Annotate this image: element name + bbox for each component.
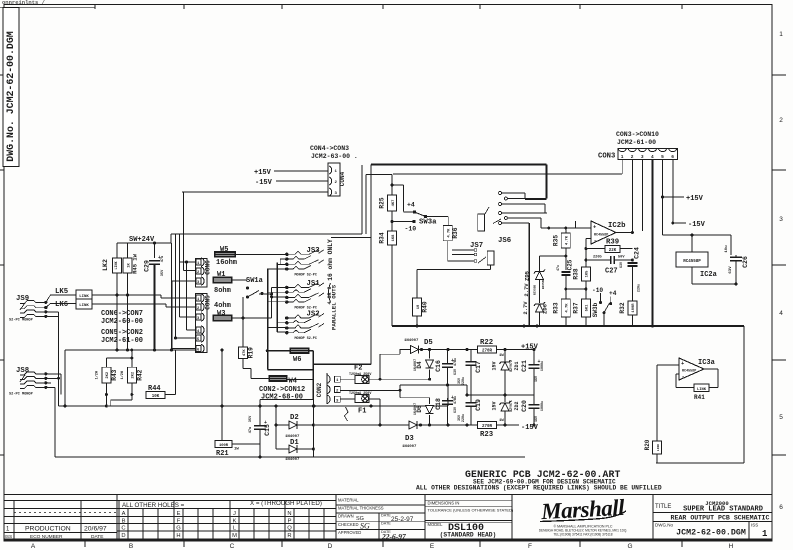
svg-text:R42: R42 xyxy=(136,369,143,380)
svg-text:2: 2 xyxy=(631,154,634,160)
svg-text:RC4558P: RC4558P xyxy=(682,370,696,374)
svg-text:D: D xyxy=(121,533,125,539)
svg-text:CON4: CON4 xyxy=(339,171,346,186)
svg-text:N: N xyxy=(287,511,291,517)
svg-text:1N4007: 1N4007 xyxy=(404,339,419,343)
svg-text:MONOP S2-PC: MONOP S2-PC xyxy=(295,337,317,341)
svg-text:B: B xyxy=(129,543,133,550)
svg-text:BZY97C: BZY97C xyxy=(509,400,513,412)
svg-text:S2-PC MONOP: S2-PC MONOP xyxy=(9,319,33,323)
svg-text:TITLE: TITLE xyxy=(655,504,671,510)
svg-text:ZD5: ZD5 xyxy=(524,270,531,281)
svg-text:C15: C15 xyxy=(264,424,271,436)
svg-text:10u: 10u xyxy=(725,245,729,253)
svg-text:1000u: 1000u xyxy=(541,361,545,371)
svg-text:10K: 10K xyxy=(152,395,160,399)
svg-text:REAR OUTPUT PCB SCHEMATIC: REAR OUTPUT PCB SCHEMATIC xyxy=(671,515,770,522)
svg-text:JS1: JS1 xyxy=(307,280,321,288)
svg-text:-15V: -15V xyxy=(255,179,273,187)
svg-text:+15V: +15V xyxy=(254,169,272,177)
svg-text:25-2-97: 25-2-97 xyxy=(391,516,414,523)
svg-text:1N4007: 1N4007 xyxy=(402,445,417,449)
svg-text:5K1: 5K1 xyxy=(586,304,590,312)
svg-text:JS3: JS3 xyxy=(307,247,321,255)
svg-text:63V: 63V xyxy=(454,406,458,413)
svg-text:R43: R43 xyxy=(111,369,118,380)
svg-text:F: F xyxy=(528,543,532,550)
svg-text:-10: -10 xyxy=(592,287,603,294)
svg-text:RC4558P: RC4558P xyxy=(683,260,701,264)
svg-text:100R: 100R xyxy=(632,303,636,313)
svg-text:6: 6 xyxy=(671,154,674,160)
svg-text:E: E xyxy=(430,543,435,550)
svg-text:R40: R40 xyxy=(422,301,429,312)
svg-text:-: - xyxy=(682,373,685,380)
svg-text:R36: R36 xyxy=(452,227,459,238)
svg-text:JS6: JS6 xyxy=(498,237,511,245)
svg-text:ALL OTHER HOLES =: ALL OTHER HOLES = xyxy=(122,502,185,509)
svg-text:4: 4 xyxy=(651,154,654,160)
svg-text:4ohm: 4ohm xyxy=(214,302,231,310)
svg-text:35V: 35V xyxy=(249,415,253,422)
svg-text:Q: Q xyxy=(287,526,292,532)
svg-text:LINK: LINK xyxy=(79,304,89,308)
svg-text:C17: C17 xyxy=(475,361,482,373)
svg-text:LK2: LK2 xyxy=(102,259,109,271)
svg-text:-: - xyxy=(594,237,597,244)
svg-text:ZD1: ZD1 xyxy=(514,361,520,370)
svg-text:JCM2-63-00 .: JCM2-63-00 . xyxy=(311,153,358,160)
svg-text:5: 5 xyxy=(661,154,664,160)
svg-text:47u: 47u xyxy=(249,427,253,433)
svg-text:LINK: LINK xyxy=(657,444,660,451)
svg-text:E: E xyxy=(177,511,181,517)
svg-text:R19: R19 xyxy=(248,347,255,358)
svg-text:50V: 50V xyxy=(618,256,625,260)
svg-text:DATE: DATE xyxy=(381,522,391,526)
svg-text:F2: F2 xyxy=(354,365,362,373)
svg-text:TOLERANCE (UNLESS OTHERWISE ST: TOLERANCE (UNLESS OTHERWISE STATED) xyxy=(428,508,514,513)
svg-text:47Bu: 47Bu xyxy=(454,396,458,404)
svg-text:1/2W: 1/2W xyxy=(120,370,125,379)
svg-text:220u: 220u xyxy=(462,414,466,422)
svg-text:63V: 63V xyxy=(729,266,733,274)
svg-text:15V: 15V xyxy=(492,361,498,370)
svg-text:1K5: 1K5 xyxy=(586,270,590,278)
svg-text:R22: R22 xyxy=(480,339,493,347)
svg-text:4: 4 xyxy=(779,310,783,317)
svg-text:RC4558P: RC4558P xyxy=(594,233,608,237)
svg-text:47u: 47u xyxy=(556,265,560,271)
svg-text:CON5: CON5 xyxy=(205,295,212,310)
svg-text:R21: R21 xyxy=(216,450,229,458)
svg-text:1W: 1W xyxy=(234,448,239,452)
svg-text:M: M xyxy=(232,533,237,539)
svg-text:16ohm: 16ohm xyxy=(216,259,237,267)
svg-text:1/2W: 1/2W xyxy=(94,370,99,379)
svg-text:B: B xyxy=(122,519,126,525)
svg-text:F: F xyxy=(177,519,181,525)
svg-text:R32: R32 xyxy=(619,302,626,313)
svg-text:R23: R23 xyxy=(480,431,494,439)
svg-text:2K2: 2K2 xyxy=(106,371,110,379)
svg-text:R38: R38 xyxy=(572,268,579,279)
svg-text:X = (THROUGH PLATED): X = (THROUGH PLATED) xyxy=(250,500,322,507)
svg-text:A: A xyxy=(31,543,36,550)
svg-text:CON4->CON3: CON4->CON3 xyxy=(310,145,349,152)
svg-text:CON2: CON2 xyxy=(316,382,323,397)
svg-text:G: G xyxy=(627,543,632,550)
svg-text:F1: F1 xyxy=(358,408,366,416)
svg-text:1: 1 xyxy=(621,154,624,160)
svg-text:R33: R33 xyxy=(552,302,559,313)
svg-text:2.7V: 2.7V xyxy=(523,283,530,297)
svg-text:5: 5 xyxy=(779,414,783,421)
svg-text:C16: C16 xyxy=(435,360,442,372)
svg-text:R41: R41 xyxy=(694,394,705,401)
svg-text:63V: 63V xyxy=(454,368,458,375)
svg-text:JCM2-61-00: JCM2-61-00 xyxy=(101,337,143,345)
svg-text:16V: 16V xyxy=(535,415,539,422)
svg-text:10: 10 xyxy=(417,304,421,309)
svg-text:R: R xyxy=(287,533,291,539)
svg-text:CHECKED: CHECKED xyxy=(338,522,358,527)
svg-text:-15V: -15V xyxy=(688,221,706,229)
svg-text:D2: D2 xyxy=(290,414,299,422)
svg-text:PRODUCTION: PRODUCTION xyxy=(25,526,71,533)
svg-text:DATE: DATE xyxy=(381,514,391,518)
svg-text:1N4007: 1N4007 xyxy=(285,458,300,462)
svg-text:IC2a: IC2a xyxy=(700,271,718,279)
svg-text:DWG.No: DWG.No xyxy=(655,523,673,528)
svg-text:+15V: +15V xyxy=(686,195,704,203)
svg-text:C26: C26 xyxy=(742,256,749,268)
svg-text:35V: 35V xyxy=(161,269,165,276)
svg-text:DWG.No. JCM2-62-00.DGM: DWG.No. JCM2-62-00.DGM xyxy=(5,31,16,161)
svg-text:onnreinlnts /: onnreinlnts / xyxy=(2,0,46,6)
svg-text:1W: 1W xyxy=(499,419,504,423)
svg-text:A: A xyxy=(122,511,126,517)
svg-text:BZX55B: BZX55B xyxy=(534,285,537,295)
svg-text:D3: D3 xyxy=(405,435,414,443)
svg-text:47Bu: 47Bu xyxy=(454,358,458,366)
svg-text:W6: W6 xyxy=(293,356,301,364)
svg-text:20/6/97: 20/6/97 xyxy=(84,526,107,533)
svg-text:4.7K: 4.7K xyxy=(566,235,570,245)
svg-text:4.7K: 4.7K xyxy=(448,228,452,238)
svg-text:+4: +4 xyxy=(609,290,617,297)
svg-text:63V: 63V xyxy=(620,261,624,268)
svg-text:SW3b: SW3b xyxy=(592,302,599,317)
svg-text:JS2: JS2 xyxy=(307,311,320,319)
svg-text:100R: 100R xyxy=(219,444,229,448)
svg-text:C19: C19 xyxy=(475,399,482,411)
svg-text:JCM2-62-00.DGM: JCM2-62-00.DGM xyxy=(676,529,746,538)
svg-text:3: 3 xyxy=(779,216,783,223)
svg-text:LK6: LK6 xyxy=(55,301,68,309)
svg-text:2: 2 xyxy=(779,117,783,124)
svg-text:H: H xyxy=(176,533,180,539)
svg-text:D: D xyxy=(328,543,333,550)
svg-text:-15V: -15V xyxy=(521,424,539,432)
svg-text:JCM2-68-00: JCM2-68-00 xyxy=(261,394,303,402)
svg-text:IC3a: IC3a xyxy=(698,359,716,367)
svg-text:C21: C21 xyxy=(521,360,528,372)
svg-text:CON3: CON3 xyxy=(598,153,615,161)
svg-text:R20: R20 xyxy=(644,439,651,450)
svg-text:C: C xyxy=(121,526,125,532)
svg-text:MATERIAL THICKNESS: MATERIAL THICKNESS xyxy=(338,506,384,511)
svg-text:C20: C20 xyxy=(521,400,528,412)
svg-text:1K8: 1K8 xyxy=(392,234,396,242)
svg-text:SW1a: SW1a xyxy=(246,277,264,285)
svg-text:SG: SG xyxy=(360,522,370,531)
svg-text:1: 1 xyxy=(779,31,783,38)
svg-text:D5: D5 xyxy=(424,339,433,347)
svg-text:G: G xyxy=(176,526,181,532)
svg-text:ALL OTHER DESIGNATIONS (EXCEPT: ALL OTHER DESIGNATIONS (EXCEPT REQUIRED … xyxy=(416,485,662,492)
svg-text:C18: C18 xyxy=(435,398,442,410)
svg-text:SW3a: SW3a xyxy=(419,219,437,227)
svg-text:CON5->CON2: CON5->CON2 xyxy=(101,329,143,337)
svg-text:+15V: +15V xyxy=(521,344,539,352)
svg-text:C27: C27 xyxy=(605,268,618,276)
svg-text:4K7: 4K7 xyxy=(392,199,396,207)
svg-text:ISS: ISS xyxy=(751,523,758,528)
svg-text:1N4007: 1N4007 xyxy=(414,359,418,371)
svg-text:JS9: JS9 xyxy=(16,295,29,303)
svg-text:4.7K: 4.7K xyxy=(566,303,570,313)
svg-text:C24: C24 xyxy=(634,247,641,259)
svg-text:CON6->CON7: CON6->CON7 xyxy=(101,310,143,318)
svg-text:ZD6: ZD6 xyxy=(542,304,549,314)
svg-text:MATERIAL: MATERIAL xyxy=(338,498,359,503)
svg-text:270R: 270R xyxy=(482,350,493,354)
svg-text:JS8: JS8 xyxy=(16,367,29,375)
svg-text:K: K xyxy=(233,519,237,525)
svg-text:LINK: LINK xyxy=(114,262,118,270)
svg-text:R25: R25 xyxy=(379,197,386,208)
svg-text:47u: 47u xyxy=(161,256,165,262)
svg-text:22K: 22K xyxy=(609,249,617,253)
svg-text:3: 3 xyxy=(641,154,644,160)
svg-text:JCM2-61-00: JCM2-61-00 xyxy=(617,139,656,146)
svg-text:2.7V: 2.7V xyxy=(522,301,529,315)
svg-text:LINK: LINK xyxy=(79,295,89,299)
svg-text:IC2b: IC2b xyxy=(608,222,626,230)
svg-text:16V: 16V xyxy=(535,375,539,382)
svg-text:MODEL: MODEL xyxy=(428,522,444,527)
svg-text:CON6: CON6 xyxy=(205,260,212,275)
svg-text:(STANDARD HEAD): (STANDARD HEAD) xyxy=(440,532,497,539)
svg-text:R34: R34 xyxy=(379,232,386,243)
svg-text:BZX55B: BZX55B xyxy=(542,279,545,289)
svg-text:R45 1W: R45 1W xyxy=(132,253,139,274)
svg-text:C: C xyxy=(230,543,235,550)
svg-text:JCM2-60-00: JCM2-60-00 xyxy=(101,318,143,326)
svg-text:270R: 270R xyxy=(482,425,493,429)
svg-text:47K: 47K xyxy=(243,349,247,357)
svg-text:ZD2: ZD2 xyxy=(514,401,520,410)
svg-text:APPROVED: APPROVED xyxy=(338,530,361,535)
svg-text:MONOP S2-PC: MONOP S2-PC xyxy=(295,273,317,277)
svg-text:2K2: 2K2 xyxy=(132,371,136,379)
svg-text:+4: +4 xyxy=(407,202,415,209)
svg-text:R37: R37 xyxy=(572,302,579,313)
svg-text:1: 1 xyxy=(762,529,768,539)
svg-text:220b: 220b xyxy=(593,255,602,260)
svg-text:J: J xyxy=(233,511,236,517)
svg-text:15V: 15V xyxy=(492,401,498,410)
svg-text:P: P xyxy=(288,519,292,525)
svg-text:220u: 220u xyxy=(462,377,466,385)
svg-text:220u: 220u xyxy=(638,284,642,292)
svg-text:H: H xyxy=(729,543,734,550)
svg-text:-10: -10 xyxy=(405,226,417,233)
svg-text:1000u: 1000u xyxy=(541,401,545,411)
svg-text:TEL:(01908) 375411 FAX:(01908): TEL:(01908) 375411 FAX:(01908) 376118 xyxy=(553,533,612,537)
svg-text:DRAWN: DRAWN xyxy=(338,514,354,519)
svg-text:W4: W4 xyxy=(289,378,297,386)
svg-text:LINK: LINK xyxy=(697,388,707,392)
svg-text:DIMENSIONS IN: DIMENSIONS IN xyxy=(428,501,460,506)
svg-text:PARALLEL OUTS: PARALLEL OUTS xyxy=(330,284,337,330)
svg-text:C29: C29 xyxy=(144,260,151,272)
svg-text:6: 6 xyxy=(779,504,783,511)
svg-text:16 ohm ONLY: 16 ohm ONLY xyxy=(327,239,334,281)
svg-text:BZY97C: BZY97C xyxy=(509,360,513,372)
svg-text:1W: 1W xyxy=(499,354,504,358)
svg-text:CON3->CON10: CON3->CON10 xyxy=(616,131,659,138)
svg-text:S2-PC MONOP: S2-PC MONOP xyxy=(9,393,33,397)
svg-text:R35: R35 xyxy=(552,235,559,246)
svg-text:1N4007: 1N4007 xyxy=(414,403,418,415)
svg-text:8ohm: 8ohm xyxy=(214,287,231,295)
